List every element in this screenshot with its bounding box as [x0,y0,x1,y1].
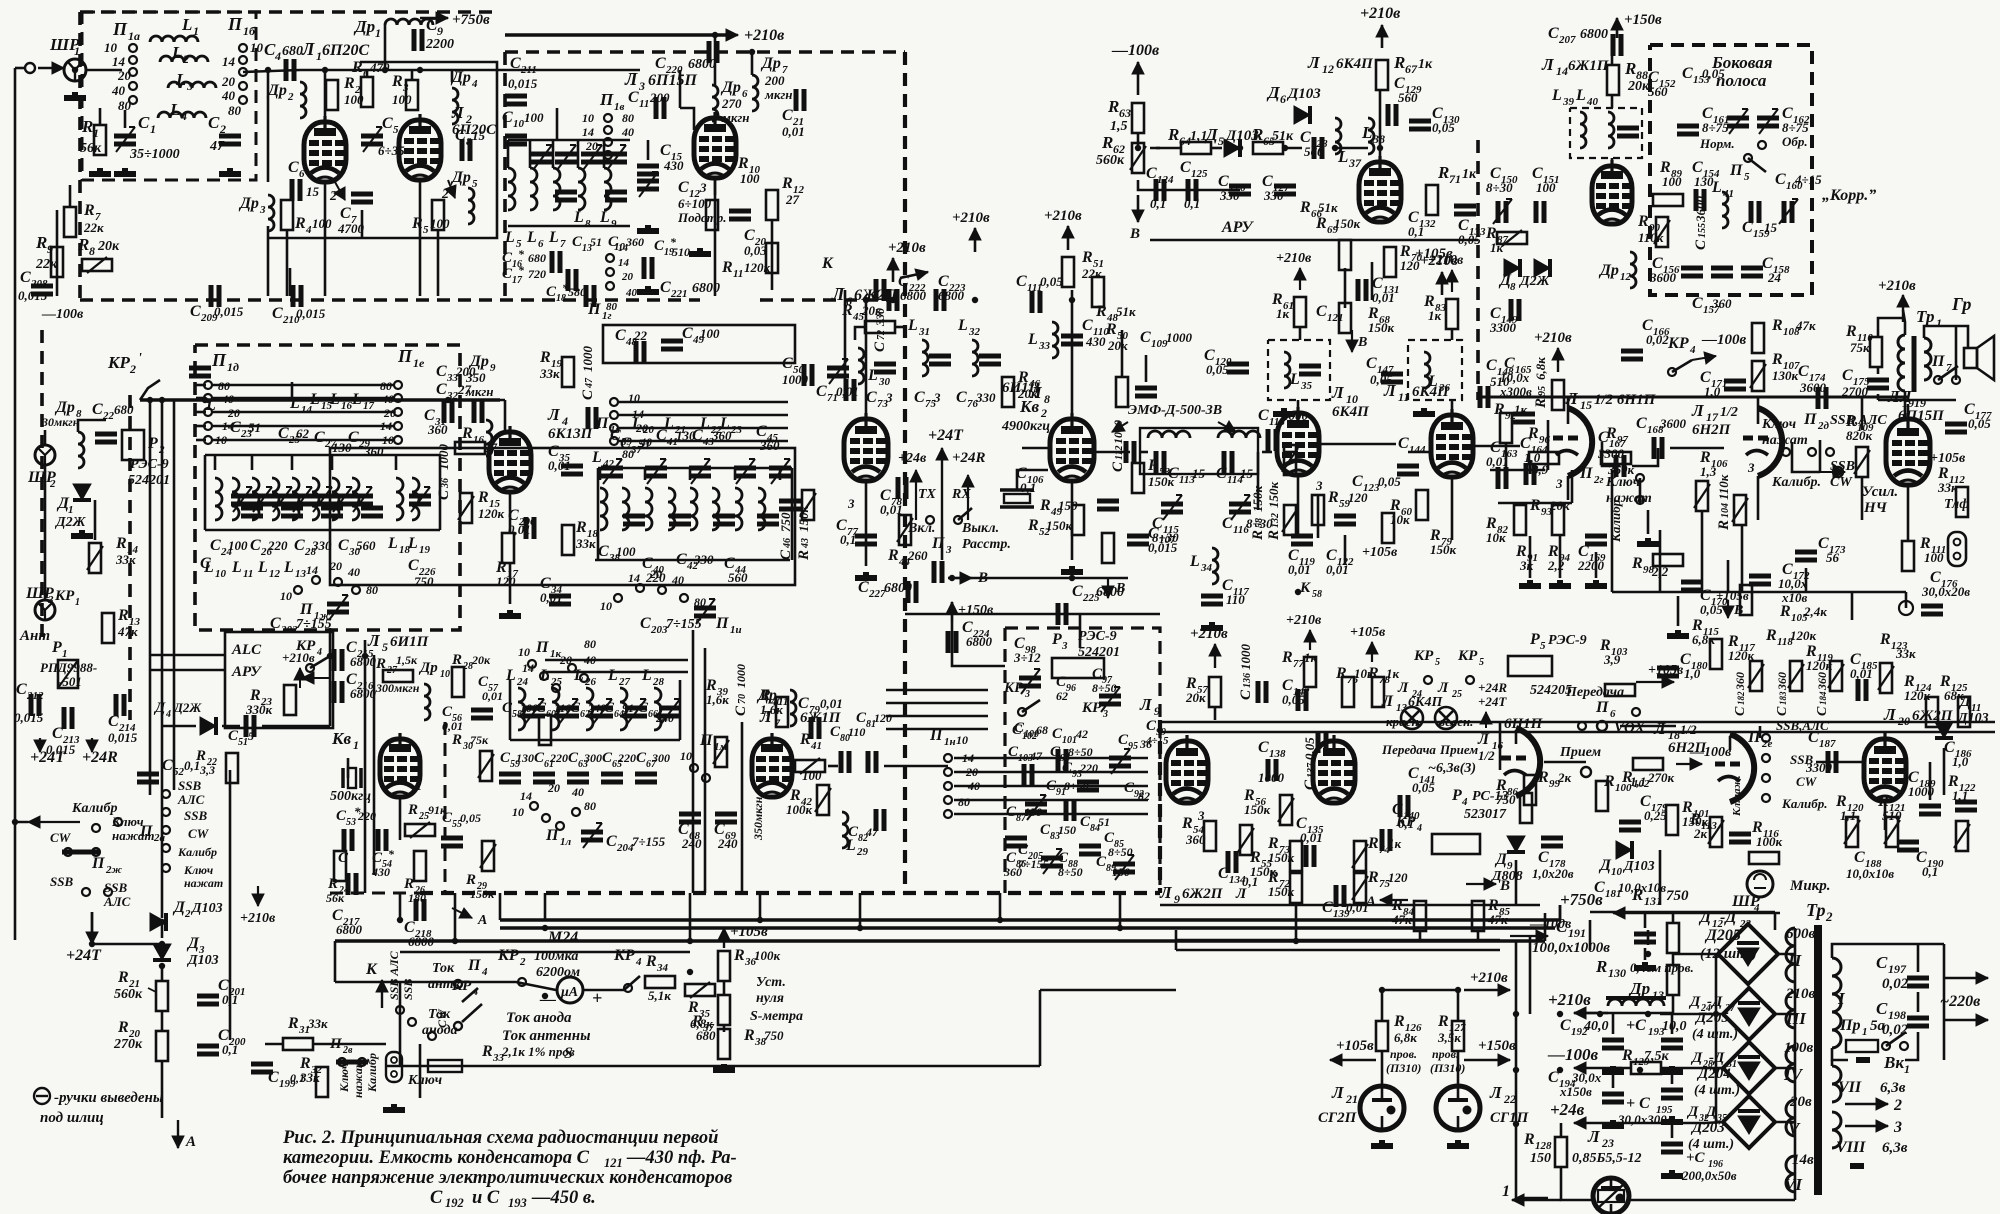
tube L4 6K13P [489,426,531,492]
resistor R92 [1500,413,1512,443]
wire to d4 [162,725,196,728]
inductor L16 [332,478,339,520]
ground R38 [713,1064,735,1070]
svg-text:1,1: 1,1 [1630,774,1646,789]
svg-text:580: 580 [568,285,586,299]
svg-text:7÷155: 7÷155 [632,834,666,849]
inductor L11 [232,478,239,520]
svg-text:Микр.: Микр. [1789,878,1831,894]
switch P1k contact 3 [568,664,576,672]
wire left edge vertical [14,68,17,430]
svg-text:Ант: Ант [19,628,50,644]
resistor R67 [1376,60,1388,90]
svg-text:360: 360 [625,235,644,249]
svg-text:240: 240 [655,711,674,725]
capacitor C144b [1397,466,1419,474]
svg-text:+150в: +150в [1624,12,1662,28]
switch P2g a [1636,474,1644,482]
svg-text:8: 8 [1044,392,1050,406]
svg-text:67: 67 [1405,62,1418,76]
svg-text:3600: 3600 [1659,416,1687,431]
svg-text:L: L [231,559,242,576]
svg-text:4: 4 [481,966,488,978]
wire r88 down [1611,95,1614,108]
capacitor C217 [348,873,356,895]
svg-text:С: С [1798,363,1809,380]
svg-text:3: 3 [186,79,193,93]
dashed input filter box [82,12,256,180]
svg-text:Тр: Тр [1916,307,1934,326]
svg-text:5: 5 [1479,657,1484,668]
svg-text:4÷15: 4÷15 [1794,172,1822,187]
arrow +150v [1611,18,1623,38]
switch P1v contact 3 [604,138,612,146]
svg-text:270: 270 [721,96,742,111]
svg-text:1: 1 [150,122,156,136]
wire R110-C175 [1877,366,1880,374]
svg-text:4÷15: 4÷15 [1145,735,1169,747]
svg-text:5: 5 [1540,640,1546,652]
resistor R31 [283,1038,313,1050]
resistor R36 [718,951,730,981]
wire band3 bus [510,739,680,742]
svg-text:10: 10 [250,40,264,55]
svg-text:14: 14 [112,54,126,69]
svg-text:Др: Др [54,399,75,416]
svg-text:560к: 560к [1096,153,1125,168]
svg-text:0,05: 0,05 [1370,372,1393,387]
capacitor C216 [334,681,342,703]
wire tr1 to L19 [1904,391,1907,420]
svg-text:150: 150 [1530,1151,1551,1166]
svg-text:120к: 120к [478,506,505,521]
svg-text:510: 510 [672,245,690,259]
switch P1e contact 5 [394,436,402,444]
svg-text:R: R [1603,773,1615,790]
svg-text:С: С [1775,171,1786,188]
svg-text:5: 5 [382,640,388,654]
lamp L25 [1435,707,1457,729]
capacitor C163 [1498,467,1506,489]
wire L12 plate [1379,90,1382,162]
switch P1k contact 1 [540,672,548,680]
arrow antenna [38,62,64,74]
svg-text:—: — [539,991,556,1008]
tube L1 6P20S [304,116,346,182]
potentiometer R117 [1750,661,1762,691]
svg-text:С: С [1742,219,1753,236]
svg-text:С: С [628,89,639,106]
inductor band2 x=735 [735,488,742,530]
capacitor C113 [1156,451,1164,473]
svg-text:10: 10 [215,568,227,580]
svg-text:С: С [408,557,419,574]
potentiometer R123 [1880,663,1892,693]
svg-text:1,0: 1,0 [1952,754,1969,769]
dashed left column sideband [1476,140,1480,400]
svg-text:П: П [1595,699,1609,716]
svg-text:14: 14 [628,571,640,585]
wire to P1a [86,69,122,72]
svg-text:2: 2 [329,189,337,204]
svg-text:100: 100 [312,216,332,231]
svg-text:L: L [387,535,398,552]
svg-text:150к: 150к [1268,850,1295,865]
svg-text:14: 14 [582,125,594,139]
svg-text:110к: 110к [1638,230,1664,245]
svg-text:Пр: Пр [1839,1017,1860,1034]
svg-text:750: 750 [764,1028,784,1043]
svg-text:270к: 270к [113,1037,143,1052]
capacitor C227 [908,581,916,603]
switch KP4-3 lever [1672,360,1692,372]
inductor emf 2 [1218,431,1260,438]
svg-text:4: 4 [305,224,312,236]
trimmer band2 x=612 [601,468,623,476]
svg-text:1к: 1к [1276,306,1290,321]
capacitor C167 [1616,455,1624,477]
tank capacitor near x=420 [409,496,431,504]
svg-text:2: 2 [519,956,526,968]
capacitor C90 [1066,799,1074,821]
svg-text:L: L [607,667,618,684]
svg-text:L: L [526,229,537,246]
capacitor C153 [1677,126,1699,134]
wire tank [1335,147,1368,150]
resistor R98 [1653,554,1683,566]
ground C1 [114,168,136,174]
svg-text:750: 750 [1496,792,1516,807]
svg-text:С: С [430,1188,443,1208]
svg-text:Д205: Д205 [1694,1010,1729,1026]
svg-text:+150в: +150в [1478,1038,1516,1054]
capacitor C211 [505,96,527,104]
trimmer band3 2 [591,708,613,716]
arrow +150v mid [946,602,958,622]
svg-text:1,3: 1,3 [1700,464,1717,479]
capacitor C8 [462,139,470,161]
svg-text:40: 40 [621,125,634,139]
wire r127 lamp [1457,1051,1460,1086]
capacitor C209 [211,285,219,307]
capacitor C136 [1258,681,1266,703]
svg-text:523017: 523017 [1464,807,1507,822]
resistor R10 [706,200,718,230]
switch P1n contact 3 [944,796,952,804]
wire R1 top [99,108,102,125]
switch P1l contact 2 [556,822,564,830]
svg-text:+С: +С [1626,1017,1646,1034]
switch P2a contact y=812 [162,808,170,816]
potentiometer R42 [817,785,829,815]
dashed antenna column [40,330,44,640]
svg-text:2: 2 [129,362,136,376]
capacitor C123 [1334,516,1356,524]
svg-text:80: 80 [622,111,634,125]
inductor Dr5 [468,188,474,224]
quartz Kv1 [343,768,361,788]
terminal tok anoda [454,1022,462,1030]
svg-text:R: R [117,607,129,624]
inductor L39 [1580,112,1586,148]
svg-text:3600: 3600 [1799,380,1827,395]
svg-text:680: 680 [282,44,303,59]
svg-text:Калибр.: Калибр. [1608,497,1623,543]
inductor band2 x=690 [690,488,697,530]
svg-text:4: 4 [274,49,281,63]
svg-text:0,015: 0,015 [14,710,44,725]
tube L19 6P15P [1886,413,1930,485]
svg-text:Р: Р [51,639,62,656]
wire bus drop b [499,893,502,920]
svg-text:16: 16 [473,434,485,446]
arrow +210v c223 [969,228,981,252]
svg-text:В: В [1733,603,1743,618]
svg-text:RX: RX [951,487,971,502]
svg-text:С: С [1636,415,1647,432]
svg-text:7÷155: 7÷155 [666,617,702,632]
inductor L4 [158,112,206,118]
svg-text:+210в: +210в [1360,5,1400,22]
svg-text:6К13П: 6К13П [548,426,594,442]
wire P1m comb 1 [886,702,988,705]
svg-text:51: 51 [590,235,602,249]
svg-text:10: 10 [614,241,626,253]
dashed relay P3 box [1005,628,1160,893]
svg-text:3,9: 3,9 [1603,652,1621,667]
svg-text:1/2 6Н1П: 1/2 6Н1П [1594,392,1657,408]
svg-text:нажат: нажат [351,1059,365,1098]
svg-text:0,1: 0,1 [1020,480,1036,495]
svg-text:80: 80 [958,795,970,809]
svg-text:РЭС-9: РЭС-9 [1548,633,1587,648]
svg-text:104: 104 [1720,503,1731,518]
inductor L18 [396,478,403,520]
svg-text:мкгн: мкгн [764,87,793,102]
svg-text:+210в: +210в [1548,990,1591,1009]
svg-text:С: С [1842,367,1853,384]
svg-text:VIII: VIII [1836,1139,1866,1156]
resistor R38 [718,1029,730,1059]
wire riser to psu2 [1559,905,1562,920]
svg-text:С: С [1316,303,1327,320]
svg-text:3: 3 [1315,478,1323,493]
svg-text:41: 41 [1722,188,1734,200]
svg-text:150к: 150к [1268,884,1295,899]
svg-text:63: 63 [1119,106,1131,120]
svg-text:нуля: нуля [756,991,784,1006]
svg-text:5: 5 [472,178,478,190]
svg-text:20к: 20к [471,653,491,667]
resistor R50 [1116,377,1128,407]
svg-text:L: L [641,667,652,684]
svg-text:L: L [171,43,182,62]
svg-text:360: 360 [1815,672,1829,691]
dashed border TX bottom right [760,298,905,302]
switch P2a contact y=868 [162,864,170,872]
svg-text:Прием: Прием [1559,745,1602,760]
capacitor C20 [729,211,751,219]
svg-text:С: С [230,419,241,436]
resistor R54 [1204,821,1216,851]
svg-text:R: R [1624,59,1636,78]
svg-text:L: L [548,229,559,246]
wire kv1 cathode [399,798,402,840]
capacitor C127 [1274,186,1296,194]
svg-text:РПД9988-: РПД9988- [40,660,97,675]
sw3 [428,1032,436,1040]
svg-text:К: К [1299,580,1311,596]
svg-text:3: 3 [933,390,941,405]
diode D2 [150,913,166,931]
svg-text:R: R [1631,555,1643,572]
switch P2v a [338,1058,346,1066]
wire c81 to p1n [884,765,948,768]
svg-text:300: 300 [583,751,602,765]
svg-text:29: 29 [856,846,869,858]
ground C117 [1201,622,1223,628]
svg-text:Др: Др [1628,979,1650,998]
svg-text:R: R [1605,425,1617,442]
capacitor C107 [1127,536,1149,544]
svg-text:2ж: 2ж [105,864,123,876]
svg-text:Д2Ж: Д2Ж [173,700,202,715]
svg-text:0,25: 0,25 [1644,808,1667,823]
arrow +210v top [700,29,738,41]
svg-text:39: 39 [1562,96,1575,108]
svg-text:130: 130 [1694,174,1714,189]
resistor R88 [1607,65,1619,95]
svg-text:6П15П: 6П15П [648,72,697,89]
svg-text:130к: 130к [1772,368,1799,383]
svg-text:2: 2 [287,91,294,103]
svg-text:С: С [1556,917,1568,936]
capacitor C171 [1724,381,1746,389]
switch P1e contact 1 [394,381,402,389]
svg-text:680: 680 [696,1028,716,1043]
svg-text:С: С [294,537,305,554]
svg-text:*: * [518,247,525,261]
svg-text:+210в: +210в [1470,970,1508,986]
inductor emf 1 [1148,431,1190,438]
svg-text:3: 3 [699,180,707,195]
dashed column kp2 [128,395,132,720]
svg-text:0,03: 0,03 [744,243,767,258]
svg-text:Д808: Д808 [1490,869,1523,884]
svg-text:38: 38 [1372,132,1385,146]
svg-text:Л: Л [367,631,381,650]
wire d3-R21 [161,966,164,981]
svg-text:560: 560 [356,538,376,553]
svg-text:С: С [1486,357,1497,374]
inductor L33 [1052,322,1058,358]
svg-text:4: 4 [316,647,322,658]
diode D8 [1534,259,1550,277]
wire R33 line [385,1065,1040,1068]
svg-text:22к: 22к [35,257,58,272]
svg-text:Р: Р [1051,631,1062,648]
svg-text:3: 3 [638,79,645,93]
svg-text:77: 77 [1293,658,1305,670]
capacitor C93 [1077,782,1099,790]
svg-text:-Д: -Д [1709,1050,1725,1066]
svg-text:С: С [598,543,609,560]
tank capacitor near x=342 [331,496,353,504]
potentiometer R58 [1284,505,1296,535]
svg-text:С: С [436,489,452,500]
svg-text:51к: 51к [1116,304,1136,319]
resistor R110 [1870,337,1882,367]
svg-text:3,3: 3,3 [199,763,215,777]
svg-text:23: 23 [1601,1136,1614,1150]
svg-text:4: 4 [165,709,171,720]
svg-text:-ручки выведены: -ручки выведены [54,1090,163,1106]
svg-text:—100в: —100в [1701,332,1747,348]
svg-text:150к: 150к [1266,482,1281,509]
svg-text:10,0: 10,0 [1662,1019,1687,1034]
svg-text:С: С [914,389,925,406]
svg-text:9: 9 [47,242,53,256]
inductor band2 x=645 [645,488,652,530]
wire r110 top [1878,318,1903,338]
inductor Dr11 [790,690,796,726]
winding Tr1 primary [1898,335,1905,391]
arrow +105v lamps [1330,1054,1376,1066]
capacitor C208 [31,286,53,294]
svg-text:Л: Л [1477,731,1490,748]
svg-text:150к: 150к [1244,802,1271,817]
relay P3 [1052,658,1104,678]
svg-text:С: С [1146,165,1157,182]
svg-text:С: С [782,107,793,124]
svg-text:R: R [1335,665,1347,682]
svg-text:56к: 56к [80,141,102,156]
svg-text:6: 6 [1610,708,1616,720]
svg-text:100: 100 [740,171,760,186]
svg-text:R: R [1107,97,1119,116]
wire loop right [1040,989,1176,992]
capacitor C45b [779,501,801,509]
svg-text:0,1: 0,1 [184,758,200,773]
svg-text:220: 220 [267,538,288,553]
svg-text:С: С [1258,407,1269,424]
svg-text:1д: 1д [227,360,239,374]
switch P1d contact 1 [204,381,212,389]
resistor R3 [406,80,418,110]
svg-text:0,01: 0,01 [1300,830,1323,845]
svg-text:R: R [1266,530,1282,541]
capacitor C156 [1681,268,1703,276]
svg-text:144: 144 [1409,444,1426,456]
switch P1m b [702,774,710,782]
svg-text:330: 330 [1263,188,1284,203]
capacitor band3 bottom x=578 [567,774,589,782]
relay P5 [1508,656,1552,676]
svg-text:нажат: нажат [1762,433,1808,448]
svg-text:2,4к: 2,4к [1803,604,1827,619]
svg-text:Др: Др [720,79,741,96]
svg-text:197: 197 [1888,962,1907,976]
svg-text:20к: 20к [1185,690,1206,705]
svg-text:Усил.: Усил. [1862,484,1898,500]
bus -100v bottom [500,918,1560,921]
svg-text:Л: Л [1381,693,1394,710]
svg-text:С: С [1876,999,1888,1018]
switch KP4' contact [306,664,314,672]
svg-text:R: R [287,1015,299,1032]
svg-text:Др: Др [760,55,781,72]
svg-text:110к: 110к [1716,474,1731,500]
